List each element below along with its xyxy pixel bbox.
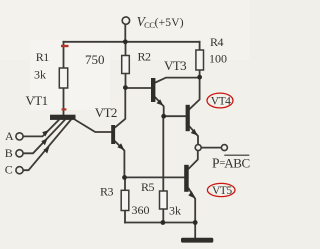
wire R1 bottom to VT1 base — [63, 88, 65, 116]
svg-text:(+5V): (+5V) — [155, 17, 184, 29]
wire R4 top — [199, 42, 201, 50]
svg-text:100: 100 — [209, 52, 227, 66]
svg-text:C: C — [5, 163, 13, 177]
wire bottom rail — [125, 222, 195, 224]
emitter arrow VT4 — [191, 129, 198, 136]
node dot Vcc rail — [123, 39, 128, 44]
wire R3 bottom — [124, 211, 126, 223]
emitter arrow VT5 — [188, 191, 195, 198]
resistor R3 — [121, 190, 129, 210]
wire VT1 collector to VT2 base — [76, 120, 112, 132]
wire R5 vertical — [162, 116, 164, 191]
wire VT5 base — [125, 176, 185, 178]
emitter arrow VT2 — [117, 143, 124, 150]
wire VT3 base — [126, 87, 152, 89]
terminal output right — [221, 145, 227, 151]
wire VT3 emitter — [155, 98, 163, 117]
svg-text:R5: R5 — [141, 180, 155, 194]
wire R1 top — [63, 42, 65, 68]
resistor R1 — [59, 68, 67, 88]
wire VT4 collector — [190, 77, 200, 109]
wire VT3 collector — [155, 78, 199, 83]
svg-text:ABC: ABC — [224, 156, 250, 171]
emitter arrow VT3 — [157, 99, 164, 106]
wire R2 bottom — [125, 74, 127, 88]
ground — [181, 238, 213, 243]
svg-text:R4: R4 — [210, 35, 224, 49]
wire Vcc drop — [124, 24, 126, 41]
red break mark top — [61, 45, 69, 47]
svg-text:VT3: VT3 — [164, 58, 186, 73]
wire output link — [201, 147, 221, 149]
transistor VT2 bar — [111, 125, 115, 144]
wire VT4 base — [164, 115, 186, 117]
wire R3 top — [124, 177, 126, 190]
resistor R2 (750) — [122, 56, 130, 74]
wire top rail — [64, 41, 200, 43]
svg-text:R1: R1 — [36, 50, 50, 64]
transistor VT4 bar — [186, 105, 190, 131]
transistor VT3 bar — [151, 78, 155, 102]
wire VT4 emitter — [190, 127, 198, 145]
resistor R5 — [160, 191, 168, 209]
svg-text:360: 360 — [132, 203, 150, 217]
svg-text:VT2: VT2 — [95, 105, 117, 120]
node dot ground junction — [193, 220, 198, 225]
svg-text:750: 750 — [85, 52, 105, 67]
node dot VT4 base — [161, 114, 166, 119]
transistor VT1 multi-emitter bar — [50, 115, 76, 120]
emitter arrow input B — [41, 138, 47, 145]
svg-text:VT1: VT1 — [26, 93, 48, 108]
node dot R2 bottom — [123, 85, 128, 90]
svg-text:3k: 3k — [34, 68, 46, 82]
terminal output node — [195, 145, 201, 151]
emitter arrow input A — [42, 130, 49, 136]
node dot R4 bottom — [197, 75, 202, 80]
wire input A — [23, 120, 58, 136]
red break mark lower — [62, 108, 67, 110]
terminal input C — [16, 167, 23, 174]
svg-text:R3: R3 — [100, 185, 114, 199]
wire R5 bottom — [162, 209, 164, 223]
svg-text:R2: R2 — [138, 50, 152, 64]
node dot VT5 base left — [122, 175, 127, 180]
wire input B — [23, 120, 64, 153]
svg-text:B: B — [5, 146, 13, 160]
wire VT5 collector — [189, 151, 198, 169]
wire input C — [23, 120, 70, 170]
terminal Vcc — [122, 17, 129, 24]
wire R4 bottom — [199, 70, 201, 77]
terminal input B — [16, 150, 23, 157]
wire R2 top — [125, 42, 127, 56]
resistor R4 — [196, 50, 204, 70]
wire VT2 emitter — [115, 141, 124, 177]
wire VT5 emitter — [189, 189, 196, 223]
svg-text:3k: 3k — [169, 204, 181, 218]
svg-text:A: A — [5, 129, 14, 143]
emitter arrow input C — [43, 147, 49, 154]
transistor VT5 bar — [184, 165, 189, 192]
node dot R5 bottom — [161, 220, 166, 225]
terminal input A — [16, 133, 23, 140]
paper background — [0, 0, 250, 249]
wire VT2 collector — [115, 88, 125, 128]
wire ground drop — [194, 223, 196, 238]
svg-text:P: P — [212, 156, 220, 171]
